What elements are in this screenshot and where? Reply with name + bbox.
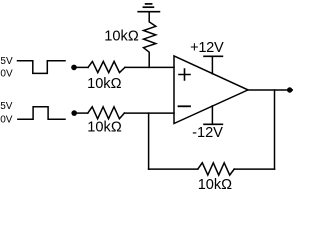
node B (bottom input node dot) (71, 110, 77, 116)
svg-text:10kΩ: 10kΩ (87, 76, 121, 92)
wire feedback right vertical (274, 90, 276, 169)
svg-text:10kΩ: 10kΩ (87, 119, 122, 135)
svg-text:10kΩ: 10kΩ (198, 177, 232, 193)
svg-text:0V: 0V (0, 69, 13, 80)
minus symbol (inverting input) (179, 105, 191, 107)
-12V supply (204, 106, 222, 124)
svg-text:5V: 5V (0, 101, 13, 112)
wire feedback left vertical (148, 113, 150, 169)
square-wave source V2 (18, 107, 65, 119)
svg-text:0V: 0V (0, 115, 13, 126)
wire R2 to op-amp + input (125, 66, 174, 68)
op-amp U1 (174, 56, 248, 124)
wire op-amp output (248, 89, 292, 91)
svg-text:-12V: -12V (192, 125, 223, 141)
square-wave source V1 (18, 61, 66, 74)
+12V supply (204, 56, 222, 74)
svg-text:5V: 5V (0, 56, 13, 67)
wire node A to R2 (74, 66, 88, 68)
resistor R3 10k (inverting input, horizontal) (88, 107, 125, 119)
ground (138, 4, 159, 12)
wire node B to R3 (74, 112, 88, 114)
node A (top input node dot) (71, 65, 77, 71)
wire feedback bottom left (149, 168, 198, 170)
node OUT (output dot) (287, 87, 292, 92)
wire feedback bottom right (234, 168, 274, 170)
svg-text:10kΩ: 10kΩ (104, 28, 139, 44)
wire R3 to op-amp - input (124, 112, 174, 114)
resistor R1 10k (grounding resistor, vertical) (144, 12, 156, 68)
svg-text:+12V: +12V (190, 40, 224, 56)
plus symbol (non-inverting input) (179, 69, 190, 80)
resistor R2 10k (non-inverting input, horizontal) (88, 61, 125, 72)
resistor R4 10k (feedback, horizontal) (198, 163, 234, 175)
